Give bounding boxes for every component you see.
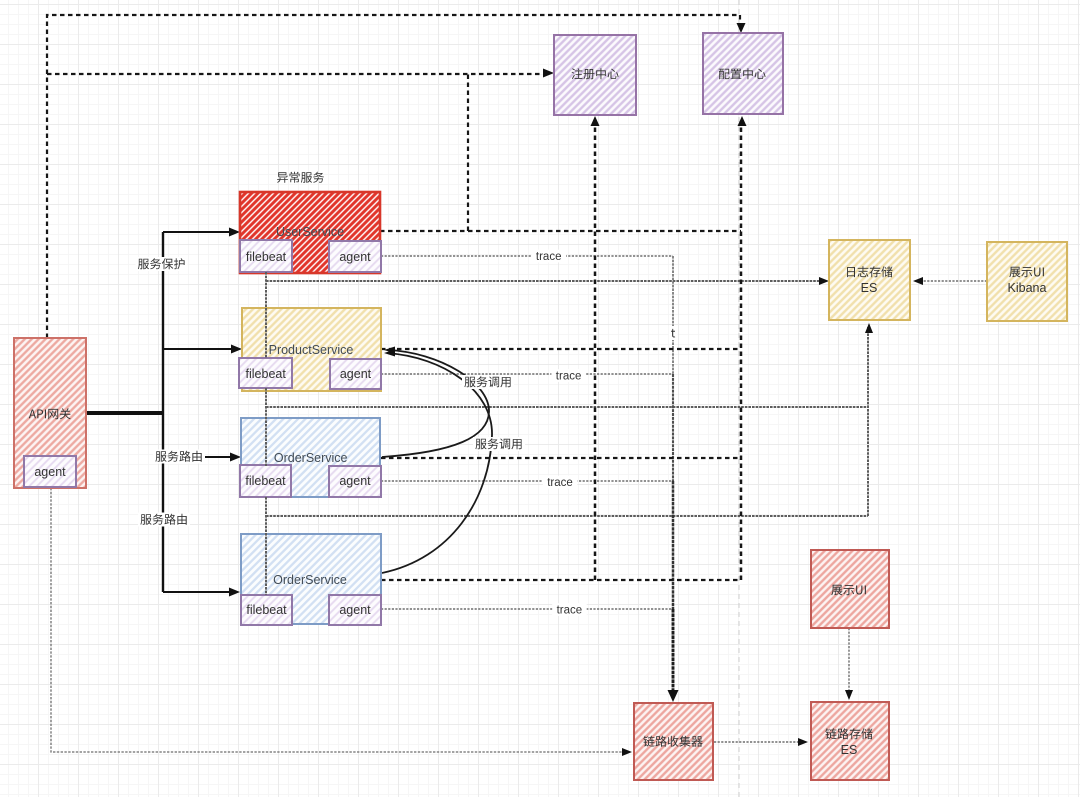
svg-text:agent: agent (339, 603, 371, 617)
svg-text:ProductService: ProductService (269, 343, 354, 357)
svg-text:agent: agent (340, 367, 372, 381)
svg-text:ES: ES (861, 281, 878, 295)
svg-text:filebeat: filebeat (246, 603, 287, 617)
svg-text:OrderService: OrderService (274, 451, 348, 465)
svg-text:trace: trace (556, 370, 582, 382)
svg-text:OrderService: OrderService (273, 573, 347, 587)
svg-text:ES: ES (841, 743, 858, 757)
svg-text:filebeat: filebeat (246, 250, 287, 264)
svg-text:filebeat: filebeat (246, 367, 287, 381)
svg-text:trace: trace (547, 477, 573, 489)
svg-text:UserService: UserService (276, 225, 344, 239)
svg-text:trace: trace (536, 251, 562, 263)
svg-text:agent: agent (339, 250, 371, 264)
svg-text:trace: trace (557, 604, 583, 616)
svg-text:agent: agent (339, 474, 371, 488)
svg-text:agent: agent (34, 465, 66, 479)
svg-text:Kibana: Kibana (1008, 281, 1047, 295)
svg-text:filebeat: filebeat (245, 474, 286, 488)
